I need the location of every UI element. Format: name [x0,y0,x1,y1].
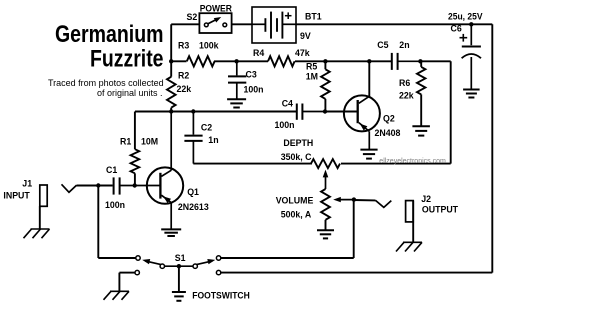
wire R2 to mid rail [170,108,172,112]
wire wiper to J2 tip [354,199,376,201]
svg-text:R5: R5 [306,61,317,71]
wire J1 to ground [39,206,41,229]
label R2 [178,71,189,81]
title text [55,21,164,73]
svg-text:FOOTSWITCH: FOOTSWITCH [192,290,250,300]
ground Q2 [360,150,377,159]
label R5 value [306,72,318,82]
svg-text:C6: C6 [451,23,462,33]
chassis ground J2 [396,242,422,251]
node C2 top [191,109,195,113]
label R5 [306,61,317,71]
switch S1 pole bar [162,265,195,267]
transistor Q2 base bar [357,100,359,123]
wire wiper drop [353,200,355,258]
label DEPTH [283,138,313,148]
label 25u 25V [448,11,483,21]
wire wiper drop to S1 [221,257,354,259]
wire input drop [97,186,99,259]
label J2 [421,194,431,204]
wire J2 to ground [412,201,414,243]
node Q2 collector top [367,59,371,63]
wire R1 top corner [135,111,171,113]
battery plus sign [285,12,292,19]
label C1 [106,165,117,175]
capacitor C5 [392,53,421,70]
svg-text:1M: 1M [306,72,318,82]
label VOLUME [276,196,314,206]
transistor Q1 emitter [161,195,171,229]
label C4 [282,99,293,109]
label DEPTH value [281,152,312,162]
svg-text:Germanium: Germanium [55,21,164,48]
label Q1 part [178,202,209,212]
capacitor C6 [462,24,481,89]
node R6 top [418,59,422,63]
svg-text:BT1: BT1 [305,12,322,22]
svg-text:9V: 9V [300,31,311,41]
svg-text:2n: 2n [399,40,409,50]
svg-text:INPUT: INPUT [3,191,30,201]
ground C6 [463,90,480,98]
svg-text:2N2613: 2N2613 [178,202,209,212]
transistor Q1 base bar [159,173,161,199]
wire Q2 collector node to C5 [326,60,392,62]
svg-text:100k: 100k [199,41,219,51]
wire R1 top lead [134,112,136,150]
label S1 [175,253,186,263]
switch S1 contact B1 [216,256,220,260]
resistor R3 [187,56,215,66]
svg-text:Fuzzrite: Fuzzrite [90,46,164,73]
capacitor C3 [228,61,246,99]
wire R4 to R5 node [295,60,326,62]
wire C5 node to right corner [420,60,450,62]
svg-text:2N408: 2N408 [375,128,401,138]
node C6 top [469,22,473,26]
switch S1 contact A1 [136,256,140,260]
ground Q1 [161,229,181,236]
wire R3 left lead [171,60,186,62]
node R5 bottom [323,109,327,113]
label R4 [253,48,264,58]
switch S1 contact A3 [135,270,139,274]
svg-text:J1: J1 [22,178,32,188]
label BT1 [305,12,322,22]
svg-text:R2: R2 [178,71,189,81]
label C1 value [105,200,125,210]
resistor R6 [417,67,425,95]
jack J1 tip contact [62,184,77,192]
transistor Q2 collector [359,61,370,103]
wire top rail left to S2 [171,23,199,25]
label 9V [300,31,311,41]
label R3 value [199,41,219,51]
ground VOLUME [317,230,334,238]
svg-text:C1: C1 [106,165,117,175]
switch S2 box [199,13,231,33]
wire R3 to C3 node [214,60,268,62]
label R6 value [399,91,414,101]
label C3 [246,70,257,80]
transistor Q2 emitter [359,123,370,150]
svg-text:100n: 100n [244,85,264,95]
wire input drop to S1 [98,257,135,259]
ground C3 [227,99,246,107]
switch S1 pivot [177,264,181,268]
resistor R4 [268,56,295,66]
svg-text:S1: S1 [175,253,186,263]
wire Q2 base lead [325,111,357,113]
label J1 [22,178,32,188]
svg-text:R6: R6 [399,78,410,88]
label Q2 part [375,128,401,138]
svg-text:500k, A: 500k, A [281,209,312,219]
node volume wiper [352,197,356,201]
label C6 [451,23,462,33]
wire right loop vertical [450,61,452,163]
node collector junction [169,109,173,113]
node input [96,183,100,187]
wire R5 top lead [324,61,326,69]
svg-text:1n: 1n [208,135,218,145]
switch S1 contact B3 [216,270,220,274]
svg-text:S2: S2 [187,12,198,22]
ground S1 [172,292,186,301]
potentiometer DEPTH [311,159,340,168]
label R1 value [141,137,158,147]
node R5 top [323,59,327,63]
wire right frame [491,24,493,272]
svg-text:10M: 10M [141,137,158,147]
svg-text:47k: 47k [295,48,310,58]
svg-text:Q1: Q1 [187,187,199,197]
svg-text:VOLUME: VOLUME [276,196,314,206]
label R2 value [177,84,192,94]
svg-text:350k, C: 350k, C [281,152,312,162]
battery BT1 box [252,7,296,43]
chassis ground J1 [24,229,50,238]
svg-text:ellzeyelectronics.com: ellzeyelectronics.com [379,158,446,165]
wire S2 to battery [232,23,253,25]
svg-text:J2: J2 [421,194,431,204]
volume wiper arrow [333,197,354,202]
switch S1 left arm [142,259,161,265]
resistor R1 [131,149,140,173]
capacitor C1 [114,177,161,194]
svg-text:DEPTH: DEPTH [283,138,313,148]
depth wiper arrow [323,170,329,189]
label R1 [120,137,131,147]
label R6 [399,78,410,88]
node R3 left [169,59,173,63]
label C4 value [275,120,295,130]
svg-text:POWER: POWER [200,3,233,13]
svg-text:R3: R3 [178,41,189,51]
wire R5 bottom lead [324,99,326,112]
switch S2 contacts [204,23,226,27]
label FOOTSWITCH [192,290,250,300]
wire R6 bottom lead [420,94,422,125]
label R3 [178,41,189,51]
svg-text:25u, 25V: 25u, 25V [448,11,483,21]
svg-text:C3: C3 [246,70,257,80]
switch S1 contact A2 [160,264,164,268]
label INPUT [3,191,30,201]
resistor R2 [167,77,176,108]
wire R1 bottom lead [134,173,136,185]
svg-text:of original units .: of original units . [97,88,163,98]
wire mid rail to C4 [171,111,296,113]
label R4 value [295,48,310,58]
wire A3 to chassis [119,273,134,292]
wire input [77,185,113,187]
label VOLUME value [281,209,312,219]
switch S1 contact B2 [193,264,197,268]
watermark ellzeyelectronics [379,158,446,165]
svg-text:R1: R1 [120,137,131,147]
svg-text:22k: 22k [399,91,414,101]
jack J1 sleeve [40,185,47,206]
jack J2 tip contact [376,200,392,207]
label S2 [187,12,198,22]
svg-text:Q2: Q2 [383,114,395,124]
label OUTPUT [422,205,459,215]
jack J2 sleeve [406,201,414,222]
svg-text:C4: C4 [282,99,293,109]
wire battery to right frame [296,23,492,25]
wire left rail upper [170,24,172,76]
wire R6 top lead [420,61,422,67]
transistor Q1 collector [161,112,171,177]
transistor Q2 circle [344,95,380,131]
switch S2 arm [208,17,221,24]
C6 plus sign [460,34,468,42]
potentiometer VOLUME [321,189,330,220]
resistor R5 [321,69,330,99]
label C2 [201,122,212,132]
capacitor C2 [184,112,202,164]
label Q2 [383,114,395,124]
svg-text:C5: C5 [377,40,388,50]
svg-text:100n: 100n [105,200,125,210]
svg-text:Traced from photos collected: Traced from photos collected [48,78,164,88]
svg-text:22k: 22k [177,84,192,94]
label Q1 [187,187,199,197]
capacitor C4 [297,104,325,120]
svg-text:OUTPUT: OUTPUT [422,205,459,215]
label C3 value [244,85,264,95]
wire depth rail [341,163,451,165]
label POWER [200,3,233,13]
chassis ground S1 [104,291,130,300]
battery plates [252,12,296,39]
wire C2 bottom to depth rail [193,163,312,165]
label C5 value [399,40,409,50]
transistor Q1 circle [147,167,183,203]
node C3 top [234,59,238,63]
label C2 value [208,135,218,145]
ground R6 [412,126,430,135]
switch S1 right arm [197,259,216,265]
svg-text:100n: 100n [275,120,295,130]
svg-text:R4: R4 [253,48,264,58]
node R1 bottom [133,183,137,187]
wire bottom bypass [221,272,493,274]
svg-text:C2: C2 [201,122,212,132]
subtitle text [48,78,164,98]
wire S1 pivot to ground [178,266,180,291]
label C5 [377,40,388,50]
wire volume bottom [325,220,327,230]
